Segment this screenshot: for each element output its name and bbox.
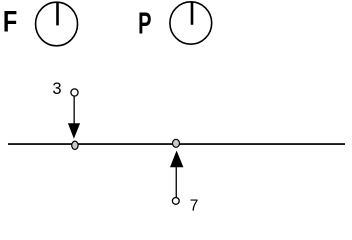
svg-text:F: F: [3, 5, 17, 38]
force arrow F arrowhead: [68, 123, 80, 139]
svg-text:7: 7: [190, 198, 199, 215]
force arrow P handle circle: [172, 198, 179, 205]
force arrow F stem: [74, 96, 75, 123]
force arrow P (up), arrowhead: [170, 151, 183, 205]
svg-text:P: P: [138, 8, 151, 41]
label F: [3, 5, 17, 38]
dial gauge F: [36, 2, 78, 46]
node 2 (gray pin on beam): [173, 139, 180, 147]
svg-text:3: 3: [52, 80, 61, 98]
dial gauge P: [170, 1, 212, 44]
node 1 (gray pin on beam): [72, 141, 78, 149]
label P: [138, 8, 151, 41]
force arrow F (down), handle circle: [68, 89, 80, 139]
force arrow P stem: [176, 167, 177, 197]
beam line: [8, 143, 345, 145]
